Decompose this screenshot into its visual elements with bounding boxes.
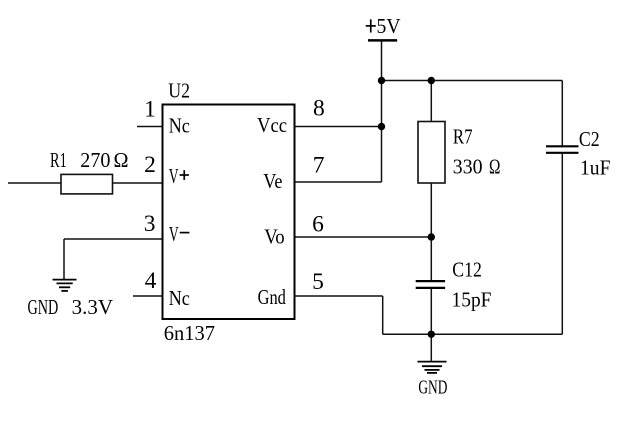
svg-text:Gnd: Gnd (258, 285, 287, 309)
svg-text:Vo: Vo (264, 225, 285, 249)
svg-text:4: 4 (145, 268, 157, 294)
svg-text:8: 8 (313, 96, 325, 122)
svg-text:V: V (169, 222, 179, 246)
svg-text:6: 6 (312, 211, 324, 237)
svg-text:7: 7 (313, 152, 325, 178)
svg-text:V: V (169, 164, 179, 188)
svg-text:3.3V: 3.3V (72, 295, 113, 319)
svg-text:1: 1 (144, 97, 156, 123)
svg-text:GND: GND (418, 376, 447, 398)
svg-text:15pF: 15pF (452, 287, 492, 311)
svg-text:C12: C12 (452, 258, 482, 282)
svg-text:U2: U2 (168, 78, 190, 102)
svg-text:2: 2 (144, 152, 156, 178)
svg-text:Ω: Ω (489, 155, 500, 179)
svg-text:3: 3 (144, 211, 156, 237)
svg-text:R1: R1 (50, 148, 67, 172)
svg-text:270: 270 (80, 148, 110, 172)
svg-text:C2: C2 (579, 127, 600, 151)
svg-text:Ω: Ω (114, 148, 129, 172)
svg-text:Vcc: Vcc (257, 113, 287, 137)
svg-text:330: 330 (453, 155, 483, 179)
svg-text:5V: 5V (377, 14, 401, 38)
svg-text:1uF: 1uF (580, 156, 611, 180)
svg-text:Ve: Ve (263, 169, 282, 193)
svg-text:Nc: Nc (169, 286, 190, 310)
svg-text:GND: GND (28, 295, 59, 319)
svg-text:6n137: 6n137 (164, 321, 215, 345)
svg-text:5: 5 (312, 269, 324, 295)
svg-text:Nc: Nc (169, 114, 190, 138)
svg-text:R7: R7 (453, 125, 473, 149)
